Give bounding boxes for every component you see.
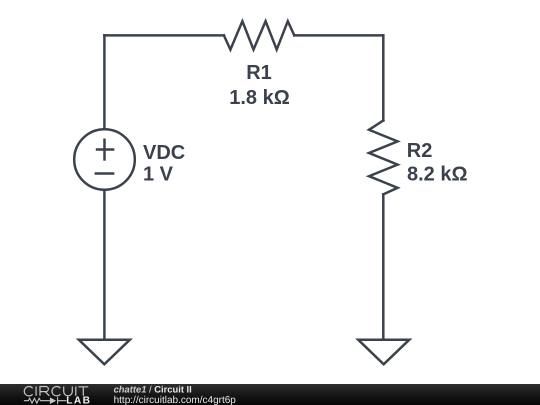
footer background bar — [0, 384, 540, 405]
logo resistor squiggle and diode — [24, 397, 67, 404]
antialias mode no-op helper (invisible) — [537, 1, 539, 3]
wire left vertical (V1 bottom to ground) — [103, 191, 106, 340]
logo letter C — [52, 387, 60, 396]
logo letter I — [75, 387, 77, 396]
logo letter T — [78, 387, 88, 396]
svg-text:chatte1 / Circuit II: chatte1 / Circuit II — [114, 383, 192, 394]
svg-text:1.8 kΩ: 1.8 kΩ — [229, 87, 290, 109]
logo letter U — [64, 387, 73, 396]
svg-text:8.2 kΩ: 8.2 kΩ — [407, 163, 468, 185]
wire right vertical (corner to R2 top) — [382, 35, 385, 120]
logo letter C — [24, 387, 32, 396]
svg-text:LAB: LAB — [66, 396, 91, 405]
voltage source V1 circle — [74, 129, 135, 190]
svg-text:R2: R2 — [407, 140, 433, 162]
voltage source minus sign — [95, 172, 115, 175]
voltage source plus sign — [96, 148, 115, 151]
ground left — [79, 340, 130, 365]
logo CIRCUIT wordmark — [24, 387, 88, 396]
wire right vertical (R2 bottom to ground) — [382, 194, 385, 339]
logo letter R — [40, 387, 49, 396]
svg-text:VDC: VDC — [143, 142, 185, 164]
logo letter I — [35, 387, 37, 396]
resistor R2 — [369, 121, 398, 195]
resistor R1 — [224, 21, 294, 49]
svg-text:R1: R1 — [246, 62, 272, 84]
wire top-right horizontal (R1 right to corner) — [294, 34, 383, 37]
svg-text:http://circuitlab.com/c4grt6p: http://circuitlab.com/c4grt6p — [114, 395, 237, 405]
wire top-left horizontal (V1 top to R1 left) — [104, 34, 223, 37]
ground right — [358, 340, 409, 365]
svg-text:1 V: 1 V — [143, 164, 174, 186]
wire left vertical (corner to V1 top) — [103, 35, 106, 128]
